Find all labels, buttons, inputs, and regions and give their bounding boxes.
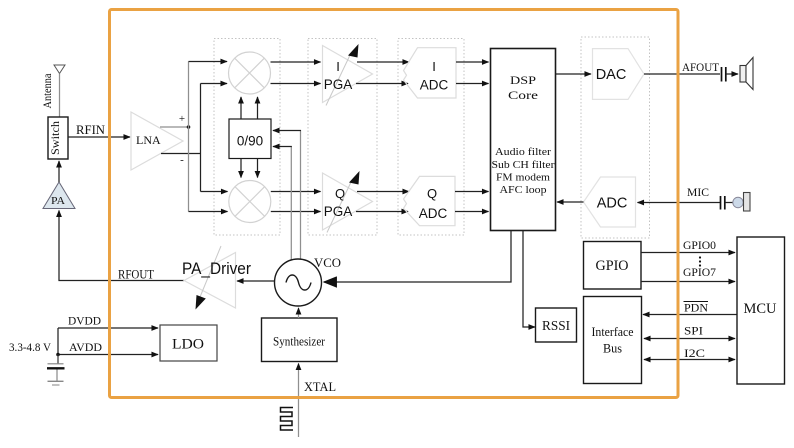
svg-text:Core: Core	[508, 88, 538, 102]
wire capacitor to speaker	[726, 73, 738, 75]
svg-text:0/90: 0/90	[237, 134, 263, 149]
wire 0/90 to Q mixer LO2	[257, 159, 259, 178]
wire I PGA to I ADC rail1	[357, 61, 409, 63]
svg-text:ADC: ADC	[419, 206, 448, 221]
converter Q ADC	[404, 176, 456, 225]
block DSP Core	[491, 49, 556, 231]
svg-text:Bus: Bus	[603, 342, 622, 356]
svg-text:Synthesizer: Synthesizer	[273, 334, 326, 349]
label dots	[699, 256, 701, 266]
svg-text:DVDD: DVDD	[68, 314, 101, 328]
wire SPI bidirectional	[644, 338, 735, 340]
block Synthesizer	[262, 318, 338, 362]
wire PA to Switch	[58, 161, 60, 182]
block Switch	[48, 117, 68, 159]
svg-text:PGA: PGA	[324, 204, 353, 219]
wire DAC to AFOUT	[644, 73, 720, 75]
svg-text:GPIO: GPIO	[596, 258, 629, 274]
wire RFIN switch to LNA	[68, 136, 130, 138]
svg-text:Sub CH filter: Sub CH filter	[492, 159, 555, 171]
wire DSP to DAC	[556, 73, 592, 75]
wire Q mixer to Q PGA rail2	[271, 211, 321, 213]
dotted stage box mixers	[214, 39, 280, 236]
svg-text:Q: Q	[335, 186, 345, 201]
svg-text:AFOUT: AFOUT	[682, 60, 720, 74]
wire to Q mixer in2	[189, 211, 228, 213]
svg-text:SPI: SPI	[684, 324, 703, 338]
wire I mixer to I PGA rail1	[271, 61, 321, 63]
wire I2C bidirectional	[644, 359, 735, 361]
wire I ADC to DSP rail2	[456, 83, 489, 85]
svg-text:RFIN: RFIN	[76, 123, 105, 137]
svg-text:LNA: LNA	[136, 133, 161, 147]
svg-text:Interface: Interface	[592, 325, 634, 339]
converter I ADC	[404, 48, 457, 98]
svg-text:3.3-4.8 V: 3.3-4.8 V	[9, 340, 51, 354]
svg-text:Antenna: Antenna	[42, 74, 54, 109]
svg-text:Switch: Switch	[48, 121, 62, 155]
block MCU	[737, 237, 785, 384]
block 0/90 phase splitter	[229, 119, 271, 159]
wire Q mixer to Q PGA rail1	[271, 191, 321, 193]
wire Q ADC to DSP rail2	[455, 211, 489, 213]
svg-text:MCU: MCU	[744, 301, 778, 317]
wire PDN from MCU	[643, 314, 737, 316]
microphone icon	[725, 193, 750, 212]
wire AVDD to LDO	[58, 354, 158, 356]
svg-text:DSP: DSP	[510, 73, 536, 87]
svg-text:I2C: I2C	[684, 346, 705, 360]
svg-text:AVDD: AVDD	[69, 340, 102, 354]
wire XTAL to Synthesizer	[298, 364, 300, 438]
svg-text:ADC: ADC	[420, 78, 449, 93]
wire VCO to PA_Driver	[237, 280, 275, 282]
svg-text:AFC loop: AFC loop	[500, 184, 548, 196]
mixer Q	[229, 181, 271, 223]
crystal clock symbol	[281, 408, 294, 431]
block GPIO	[584, 242, 642, 290]
wire GPIO7 to MCU	[641, 281, 735, 283]
wire 0/90 to I mixer LO1	[240, 97, 242, 119]
wire MIC to ADC	[638, 202, 721, 204]
svg-text:FM modem: FM modem	[496, 172, 550, 184]
wire Q PGA to Q ADC rail1	[357, 191, 409, 193]
oscillator VCO	[275, 259, 322, 306]
svg-text:I: I	[336, 59, 340, 74]
wire Synthesizer to VCO	[298, 308, 300, 318]
amplifier PA_Driver	[182, 246, 251, 310]
wire Q PGA to Q ADC rail2	[356, 211, 408, 213]
svg-text:PA_Driver: PA_Driver	[182, 259, 251, 278]
wire RFOUT to PA	[59, 211, 184, 281]
wire 0/90 to I mixer LO2	[257, 97, 259, 119]
wire Q ADC to DSP rail1	[455, 191, 489, 193]
svg-text:PDN: PDN	[684, 301, 708, 315]
amplifier I PGA	[323, 44, 373, 106]
wire audio ADC to DSP	[557, 201, 584, 203]
wire vertical bus B	[200, 84, 202, 192]
wire VCO to 0/90 upper	[300, 130, 302, 260]
svg-text:VCO: VCO	[314, 255, 341, 270]
wire VCO to 0/90 lower	[290, 146, 292, 260]
block RSSI	[536, 308, 577, 342]
wire I mixer to I PGA rail2	[271, 83, 321, 85]
svg-text:+: +	[179, 113, 185, 125]
block LDO	[160, 325, 217, 361]
svg-text:-: -	[180, 154, 184, 166]
wire LNA plus output	[160, 125, 190, 129]
svg-text:LDO: LDO	[172, 337, 204, 353]
svg-text:DAC: DAC	[596, 67, 627, 83]
capacitor MIC	[721, 196, 725, 210]
svg-text:I: I	[432, 59, 436, 74]
svg-text:Q: Q	[427, 186, 437, 201]
dotted stage box DAC/ADC	[581, 37, 650, 238]
capacitor AFOUT	[722, 67, 726, 82]
svg-text:RFOUT: RFOUT	[118, 268, 154, 282]
speaker icon	[740, 58, 753, 90]
wire to I mixer in1	[189, 61, 228, 63]
dotted stage box ADC	[398, 39, 464, 236]
wire to Q mixer in1	[201, 191, 228, 193]
mixer I	[229, 52, 271, 94]
wire supply vertical	[56, 328, 60, 356]
amplifier Q PGA	[323, 171, 373, 233]
converter audio ADC	[584, 177, 636, 227]
wire DSP to RSSI	[523, 231, 535, 328]
wire GPIO0 to MCU	[641, 252, 735, 254]
svg-text:PA: PA	[51, 195, 65, 207]
amplifier LNA	[131, 112, 185, 170]
svg-text:GPIO7: GPIO7	[683, 267, 716, 279]
chip boundary orange border	[110, 10, 679, 398]
svg-text:Audio filter: Audio filter	[495, 146, 551, 158]
antenna symbol	[54, 65, 65, 117]
wire vertical bus A	[188, 62, 190, 212]
label PDN with overline	[684, 301, 709, 315]
svg-text:GPIO0: GPIO0	[683, 240, 716, 252]
amplifier PA	[43, 182, 75, 209]
svg-text:XTAL: XTAL	[304, 380, 336, 394]
svg-text:MIC: MIC	[687, 185, 709, 199]
dotted stage box PGA	[308, 39, 377, 236]
wire I ADC to DSP rail1	[456, 61, 489, 63]
wire DSP to VCO (AFC)	[324, 231, 511, 283]
wire DVDD to LDO	[58, 327, 158, 329]
converter DAC	[593, 49, 645, 100]
block Interface Bus	[584, 297, 642, 384]
svg-text:RSSI: RSSI	[542, 318, 570, 333]
wire LNA minus output	[161, 153, 201, 155]
wire to I mixer in2	[201, 83, 228, 85]
wire I PGA to I ADC rail2	[356, 83, 408, 85]
wire 0/90 to Q mixer LO1	[240, 159, 242, 178]
svg-text:ADC: ADC	[597, 196, 628, 212]
battery and ground	[47, 355, 65, 386]
svg-text:PGA: PGA	[324, 77, 353, 92]
